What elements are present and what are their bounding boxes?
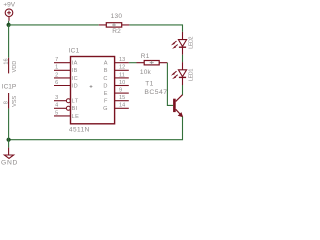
pin 3 LT with bubble bbox=[54, 95, 79, 105]
svg-text:12: 12 bbox=[119, 65, 125, 71]
name T1 bbox=[145, 80, 153, 87]
wire R2 to top-right corner and down to LED2 bbox=[129, 25, 182, 32]
svg-text:BC547: BC547 bbox=[144, 89, 167, 96]
svg-text:7: 7 bbox=[55, 57, 58, 63]
svg-text:10k: 10k bbox=[140, 69, 152, 76]
name IC1P bbox=[2, 83, 16, 90]
net +9V label bbox=[3, 2, 15, 9]
svg-text:LED2: LED2 bbox=[189, 36, 195, 48]
name LED1 (vertical) bbox=[189, 69, 195, 81]
pin 2 IC bbox=[54, 72, 78, 82]
origin cross IC1 bbox=[90, 85, 93, 88]
wire junction down to GND bbox=[8, 140, 10, 148]
pin 11 C bbox=[103, 72, 128, 82]
name LED2 (vertical) bbox=[189, 36, 195, 48]
svg-text:9: 9 bbox=[119, 88, 122, 94]
junction node bottom-left bbox=[7, 138, 11, 142]
svg-text:13: 13 bbox=[119, 57, 125, 63]
pin 9 E bbox=[104, 88, 129, 98]
svg-text:16: 16 bbox=[4, 58, 10, 64]
svg-text:1: 1 bbox=[55, 65, 58, 71]
svg-text:A: A bbox=[104, 61, 108, 67]
wire LED2 to LED1 bbox=[182, 55, 184, 62]
svg-text:IB: IB bbox=[72, 68, 78, 74]
svg-text:IC1: IC1 bbox=[69, 48, 80, 55]
value 4511N bbox=[69, 127, 90, 134]
svg-text:VDD: VDD bbox=[12, 61, 18, 73]
value 130 bbox=[111, 13, 123, 20]
pin 14 G bbox=[103, 103, 129, 113]
resistor R2 bbox=[99, 23, 130, 27]
svg-text:T1: T1 bbox=[145, 80, 153, 87]
name IC1 bbox=[69, 48, 80, 55]
svg-text:GND: GND bbox=[1, 160, 18, 167]
pin 6 ID bbox=[54, 80, 78, 90]
LED2 bbox=[171, 32, 187, 55]
svg-text:LED1: LED1 bbox=[189, 69, 195, 81]
pin 12 B bbox=[104, 65, 129, 75]
pin 4 BI with bubble bbox=[54, 103, 78, 113]
svg-text:BI: BI bbox=[72, 106, 78, 112]
LED1 bbox=[171, 62, 187, 85]
svg-text:B: B bbox=[104, 68, 108, 74]
svg-text:D: D bbox=[103, 83, 108, 89]
svg-text:IA: IA bbox=[72, 61, 78, 67]
svg-text:VSS: VSS bbox=[12, 95, 18, 106]
supply symbol +9V bbox=[5, 9, 13, 21]
svg-text:10: 10 bbox=[119, 80, 125, 86]
svg-text:3: 3 bbox=[55, 95, 58, 101]
wire top rail to R2 bbox=[9, 24, 99, 26]
IC IC1 4511N body bbox=[71, 57, 115, 124]
svg-text:6: 6 bbox=[55, 80, 58, 86]
wire T1 emitter down and bottom rail bbox=[9, 117, 183, 140]
wire pin13 to R1 bbox=[129, 62, 137, 64]
IC1 power gate: VSS pin 8 bbox=[4, 93, 19, 109]
svg-text:LE: LE bbox=[72, 114, 80, 120]
pin 7 IA bbox=[54, 57, 78, 67]
ground symbol bbox=[4, 155, 13, 158]
pin 5 LE bbox=[54, 110, 79, 120]
wire VSS to bottom rail bbox=[8, 109, 10, 140]
svg-text:11: 11 bbox=[119, 72, 125, 78]
wire LED1 to T1 collector bbox=[182, 85, 184, 95]
svg-text:LT: LT bbox=[72, 99, 79, 105]
svg-text:14: 14 bbox=[119, 103, 125, 109]
junction node top-left bbox=[7, 23, 11, 27]
svg-text:130: 130 bbox=[111, 13, 123, 20]
wire left rail down to IC1P VDD pin bbox=[8, 25, 10, 58]
svg-text:2: 2 bbox=[55, 72, 58, 78]
svg-text:8: 8 bbox=[4, 101, 10, 104]
transistor T1 bbox=[173, 95, 183, 118]
svg-text:5: 5 bbox=[55, 110, 58, 116]
svg-text:R2: R2 bbox=[112, 28, 121, 35]
svg-text:4: 4 bbox=[55, 103, 58, 109]
svg-text:C: C bbox=[103, 76, 108, 82]
name R2 bbox=[112, 28, 121, 35]
svg-text:R1: R1 bbox=[141, 53, 150, 60]
svg-text:ID: ID bbox=[72, 83, 79, 89]
pin 10 D bbox=[103, 80, 128, 90]
svg-text:IC: IC bbox=[72, 76, 79, 82]
svg-text:+9V: +9V bbox=[3, 2, 15, 9]
svg-text:IC1P: IC1P bbox=[2, 83, 16, 90]
svg-text:15: 15 bbox=[119, 95, 125, 101]
svg-text:G: G bbox=[103, 106, 108, 112]
resistor R1 bbox=[137, 61, 168, 65]
net GND label bbox=[1, 160, 18, 167]
IC1 power gate: VDD pin 16 bbox=[4, 58, 19, 74]
wire R1 to T1 base bbox=[167, 63, 173, 106]
wire supply to top rail bbox=[8, 21, 10, 25]
svg-text:E: E bbox=[104, 91, 108, 97]
svg-text:F: F bbox=[104, 99, 108, 105]
pin 15 F bbox=[104, 95, 129, 105]
svg-text:4511N: 4511N bbox=[69, 127, 90, 134]
pin 1 IB bbox=[54, 65, 78, 75]
value BC547 bbox=[144, 89, 167, 96]
value 10k bbox=[140, 69, 152, 76]
pin 13 A bbox=[104, 57, 129, 67]
name R1 bbox=[141, 53, 150, 60]
